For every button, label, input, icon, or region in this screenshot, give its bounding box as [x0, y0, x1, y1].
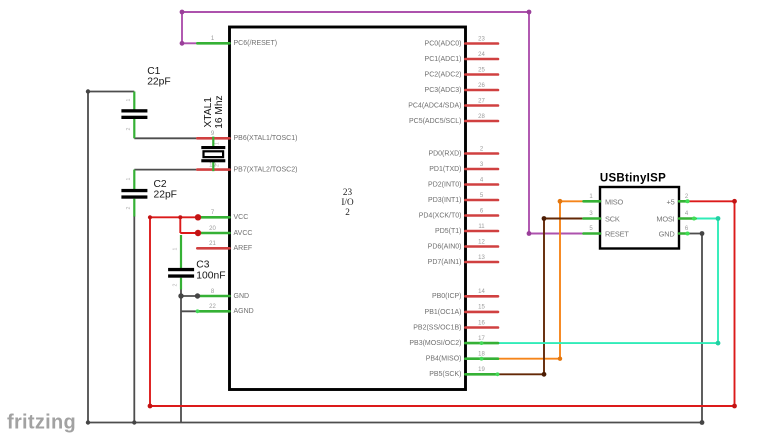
pin U1.21 AREF	[197, 241, 252, 252]
capacitor C3 label "C3 100nF"	[196, 259, 225, 281]
wire: SCK net into USBtinyISP SCK pin (brown)	[544, 218, 584, 220]
wire: MOSI net vertical x=718 (cyan)	[717, 219, 719, 344]
wire: VCC net right vertical x=734.5 (red)	[734, 201, 736, 406]
wire: MISO net into USBtinyISP MISO pin (orange)	[560, 200, 584, 202]
junction: GND node dot (181,296)	[178, 293, 183, 298]
crystal X1 bottom lead	[212, 161, 214, 171]
pin U1.2 PD0(RXD)	[428, 146, 498, 157]
svg-text:PB5(SCK): PB5(SCK)	[429, 371, 461, 378]
IC U2 USBtinyISP body	[600, 187, 679, 249]
svg-text:13: 13	[478, 255, 485, 261]
junction: brown bend at (544,374.3)	[542, 372, 547, 377]
svg-text:PC0(ADC0): PC0(ADC0)	[425, 40, 462, 47]
IC U1 body (ATmega 23 I/O 2)	[230, 27, 466, 390]
pin U2.1 MISO	[584, 194, 624, 207]
svg-text:PC6(/RESET): PC6(/RESET)	[234, 40, 278, 47]
capacitor C1 bottom lead	[133, 119, 135, 138]
junction: red tee at (180.3,217.3)	[178, 215, 182, 219]
svg-text:22pF: 22pF	[147, 76, 170, 87]
pin U2.6 GND	[659, 226, 690, 239]
pin U1.27 PC4(ADC4/SDA)	[408, 98, 498, 109]
svg-text:C3: C3	[196, 259, 209, 270]
svg-text:PB4(MISO): PB4(MISO)	[426, 356, 462, 363]
junction: red bend at (734.5,201.3)	[732, 199, 737, 204]
svg-text:23: 23	[478, 36, 485, 42]
svg-text:12: 12	[478, 239, 485, 245]
svg-text:15: 15	[478, 305, 485, 311]
pin U1.4 PD2(INT0)	[428, 177, 498, 188]
pin U1.3 PD1(TXD)	[429, 162, 498, 173]
svg-text:AREF: AREF	[234, 245, 253, 252]
wire: RESET net into USBtinyISP RESET pin (purple)	[529, 233, 584, 235]
pin U1.25 PC2(ADC2)	[425, 67, 498, 78]
pin U2.2 +5	[666, 194, 689, 207]
svg-text:PD5(T1): PD5(T1)	[435, 228, 461, 235]
svg-text:AVCC: AVCC	[234, 230, 253, 237]
svg-text:17: 17	[478, 336, 485, 342]
svg-text:RESET: RESET	[605, 230, 629, 239]
junction: orange bend at (560,201.3)	[558, 199, 563, 204]
wire: MOSI net horizontal from PB3 (cyan)	[487, 342, 718, 344]
svg-text:27: 27	[478, 98, 485, 104]
wire: SCK net vertical x=544 (brown)	[543, 219, 545, 375]
junction: GND stub dot (197.5,296)	[195, 293, 200, 298]
svg-text:GND: GND	[234, 293, 250, 300]
pin U1.16 PB2(SS/OC1B)	[413, 320, 498, 331]
junction: red bend at (150,217.3)	[148, 215, 152, 219]
pin U1.23 PC0(ADC0)	[425, 36, 498, 47]
crystal X1 body rectangle	[204, 151, 224, 157]
svg-text:1: 1	[126, 177, 132, 180]
svg-text:AGND: AGND	[234, 308, 254, 315]
junction: red bend at (150,406)	[148, 404, 153, 409]
svg-text:22pF: 22pF	[154, 189, 177, 200]
capacitor C2 plates	[121, 189, 147, 192]
junction: brown bend at (544,218.5)	[542, 216, 547, 221]
pin U2.3 SCK	[584, 211, 620, 224]
wire: GND net right vertical x=702	[701, 234, 703, 423]
capacitor C1 plates	[121, 109, 147, 112]
wire: GND net bottom rail	[88, 422, 702, 424]
wire: RESET net right vertical at x=529 (purple)	[528, 12, 530, 234]
junction: GND rail dot (88,422.5)	[86, 420, 90, 424]
wire: GND net C2 bottom vertical x=134.3	[133, 216, 135, 423]
junction: GND bend at USBtinyISP (702,233.5)	[700, 231, 705, 236]
junction: purple bend at (182,12)	[180, 10, 185, 15]
capacitor C1 top lead	[133, 92, 135, 110]
svg-text:23: 23	[343, 187, 353, 197]
wire: VCC net into USBtinyISP +5 pin (red)	[688, 200, 735, 202]
svg-text:19: 19	[478, 367, 485, 373]
svg-text:PD1(TXD): PD1(TXD)	[429, 166, 461, 173]
wire: SCK net horizontal to PB5 (brown)	[498, 373, 545, 375]
pin U1.6 PD4(XCK/T0)	[419, 208, 498, 219]
svg-text:MOSI: MOSI	[656, 215, 674, 224]
wire: VCC net left vertical x=150 (red)	[149, 217, 151, 406]
svg-text:PB6(XTAL1/TOSC1): PB6(XTAL1/TOSC1)	[234, 135, 298, 142]
wire: MOSI net into USBtinyISP MOSI pin (cyan)	[695, 218, 719, 220]
svg-text:C2: C2	[154, 179, 167, 190]
pin U1.10 PB7(XTAL2/TOSC2)	[197, 162, 297, 173]
pin U1.17 PB3(MOSI/OC2)	[409, 336, 498, 347]
pin U1.14 PB0(ICP)	[432, 289, 498, 300]
junction: purple bend at (182,43.3)	[180, 41, 185, 46]
junction: cyan bend at (718,218.5)	[716, 216, 721, 221]
pin U1.15 PB1(OC1A)	[425, 305, 498, 316]
junction: red dot at VCC pin end (198,217.3)	[195, 214, 201, 220]
pin U1.7 VCC	[197, 210, 248, 221]
wire: GND net C3 bottom to GND pin	[181, 295, 198, 297]
svg-text:PD3(INT1): PD3(INT1)	[428, 197, 461, 204]
svg-text:PD4(XCK/T0): PD4(XCK/T0)	[419, 212, 462, 219]
pin U1.11 PD5(T1)	[435, 224, 498, 235]
svg-text:PB3(MOSI/OC2): PB3(MOSI/OC2)	[409, 340, 461, 347]
wire: RESET net stub into PC6 pin (purple)	[182, 42, 198, 44]
svg-text:+5: +5	[666, 197, 674, 206]
svg-text:2: 2	[215, 164, 221, 167]
svg-text:PD2(INT0): PD2(INT0)	[428, 181, 461, 188]
svg-text:PC1(ADC1): PC1(ADC1)	[425, 56, 462, 63]
svg-text:22: 22	[209, 304, 216, 310]
IC U1 label "23 I/O 2"	[341, 187, 354, 217]
pin U1.13 PD7(AIN1)	[428, 255, 498, 266]
junction: orange bend at (560,358.7)	[558, 357, 562, 361]
svg-text:24: 24	[478, 52, 485, 58]
svg-text:21: 21	[209, 241, 216, 247]
svg-text:PB2(SS/OC1B): PB2(SS/OC1B)	[413, 324, 461, 331]
pin U1.9 PB6(XTAL1/TOSC1)	[197, 131, 297, 142]
wire: GND net left vertical rail x=88	[87, 92, 89, 423]
pin U1.20 AVCC	[197, 226, 252, 237]
junction: purple bend at (529,12)	[527, 10, 532, 15]
junction: GND rail right end (702,422.5)	[700, 420, 705, 425]
pin U1.22 AGND	[196, 304, 254, 315]
capacitor C1 label "C1 22pF"	[147, 66, 170, 87]
pin U1.8 GND	[197, 289, 249, 300]
wire: RESET net left vertical drop to PC6 (purple)	[181, 12, 183, 43]
wire: VCC net horizontal into VCC pin (red)	[150, 216, 198, 218]
wire: GND net vertical from C3 bottom x=181	[180, 289, 182, 423]
junction: GND rail dot (134.3,422.5)	[132, 420, 136, 424]
svg-text:2: 2	[173, 283, 179, 286]
svg-text:USBtinyISP: USBtinyISP	[600, 173, 666, 185]
svg-text:25: 25	[478, 67, 485, 73]
junction: cyan bend at (718,343.1)	[716, 341, 721, 346]
pin U2.5 RESET	[584, 226, 630, 239]
svg-text:PC5(ADC5/SCL): PC5(ADC5/SCL)	[409, 118, 462, 125]
svg-text:16 Mhz: 16 Mhz	[214, 95, 225, 128]
wire: VCC net bottom rail (red)	[150, 405, 735, 407]
pin U1.24 PC1(ADC1)	[425, 52, 498, 63]
pin U1.1 PC6(/RESET)	[197, 36, 277, 47]
svg-text:PB7(XTAL2/TOSC2): PB7(XTAL2/TOSC2)	[234, 167, 298, 174]
svg-text:26: 26	[478, 83, 485, 89]
junction: red bend at (734.5,406)	[732, 404, 737, 409]
svg-text:2: 2	[126, 206, 132, 209]
svg-text:PC3(ADC3): PC3(ADC3)	[425, 87, 462, 94]
pin U1.5 PD3(INT1)	[428, 193, 498, 204]
capacitor C2 bottom lead	[133, 199, 135, 217]
capacitor C2 label "C2 22pF"	[154, 179, 177, 200]
junction: red dot at AVCC pin end (198,233)	[195, 230, 201, 236]
crystal X1 bottom plate	[201, 159, 225, 162]
svg-text:PD7(AIN1): PD7(AIN1)	[428, 259, 462, 266]
svg-text:PC4(ADC4/SDA): PC4(ADC4/SDA)	[408, 102, 461, 109]
wire: XTAL node - C2 top to PB7	[134, 169, 198, 171]
wire: RESET net top horizontal (purple)	[182, 11, 529, 13]
wire: XTAL node - C1 bottom to PB6	[134, 137, 198, 139]
svg-text:16: 16	[478, 320, 485, 326]
wire: MISO net horizontal to PB4 (orange)	[498, 358, 561, 360]
svg-text:2: 2	[345, 207, 350, 217]
svg-text:VCC: VCC	[234, 214, 249, 221]
capacitor C2 top lead	[133, 170, 135, 190]
pin U2.4 MOSI	[656, 211, 696, 224]
wire: MISO net vertical x=560 (orange)	[559, 201, 561, 358]
capacitor C3 bottom lead	[180, 278, 182, 290]
svg-text:PB0(ICP): PB0(ICP)	[432, 293, 462, 300]
svg-text:PD0(RXD): PD0(RXD)	[428, 150, 461, 157]
junction: purple bend at (529,233.5)	[527, 231, 532, 236]
crystal X1 top plate	[201, 146, 225, 149]
svg-text:2: 2	[126, 127, 132, 130]
pin U1.19 PB5(SCK)	[429, 367, 499, 378]
svg-text:PC2(ADC2): PC2(ADC2)	[425, 71, 462, 78]
capacitor C3 plates	[168, 268, 194, 271]
svg-text:PB1(OC1A): PB1(OC1A)	[425, 309, 462, 316]
svg-text:100nF: 100nF	[196, 270, 225, 281]
svg-text:1: 1	[215, 142, 221, 145]
wire: AVCC branch vertical x=180.3 (red)	[179, 217, 181, 233]
wire: GND net AGND branch horizontal	[181, 310, 198, 312]
svg-text:18: 18	[478, 352, 485, 358]
svg-text:PD6(AIN0): PD6(AIN0)	[428, 243, 462, 250]
svg-text:I/O: I/O	[341, 197, 354, 207]
pin U1.18 PB4(MISO)	[426, 352, 498, 363]
svg-text:20: 20	[209, 226, 216, 232]
crystal X1 value label "XTAL1 16 Mhz" (rotated)	[203, 95, 225, 128]
capacitor C3 top lead	[180, 235, 182, 268]
svg-text:14: 14	[478, 289, 485, 295]
svg-text:GND: GND	[659, 230, 675, 239]
svg-text:28: 28	[478, 114, 485, 120]
svg-text:fritzing: fritzing	[7, 412, 76, 434]
svg-text:SCK: SCK	[605, 215, 620, 224]
pin U1.12 PD6(AIN0)	[428, 239, 498, 250]
junction: GND bend at (88,91.5)	[86, 89, 90, 93]
wire: GND net USBtinyISP GND pin horizontal	[688, 233, 702, 235]
wire: GND net C1 top horizontal	[88, 91, 134, 93]
svg-text:11: 11	[478, 224, 485, 230]
wire: AVCC branch horizontal into AVCC pin (red)	[180, 232, 198, 234]
pin U1.28 PC5(ADC5/SCL)	[409, 114, 498, 125]
pin U1.26 PC3(ADC3)	[425, 83, 498, 94]
crystal X1 top lead	[212, 137, 214, 147]
svg-text:1: 1	[126, 98, 132, 101]
svg-text:C1: C1	[147, 66, 160, 77]
svg-text:MISO: MISO	[605, 197, 624, 206]
svg-text:XTAL1: XTAL1	[203, 97, 214, 128]
svg-text:1: 1	[173, 247, 179, 250]
